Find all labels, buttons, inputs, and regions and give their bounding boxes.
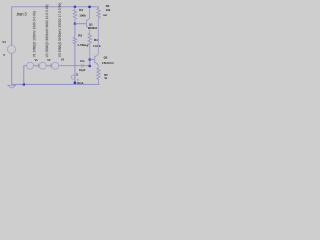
cap-like plate mark bbox=[37, 63, 39, 68]
svg-text:R3: R3 bbox=[78, 34, 82, 38]
resistor R1 (top, on x=74.9 column) bbox=[73, 7, 76, 24]
voltage source V3 bbox=[52, 62, 59, 69]
svg-text:V2 SINE(0 3000mV 6000 10 0 0 4: V2 SINE(0 3000mV 6000 10 0 0 45) bbox=[45, 5, 49, 58]
svg-text:V4: V4 bbox=[2, 40, 6, 44]
wire emitter node to Q2 base bbox=[90, 58, 95, 60]
wire: bottom rail bbox=[12, 83, 100, 85]
wire V3 to cap Cin bbox=[59, 65, 90, 67]
ground bbox=[8, 85, 16, 88]
junction at top rail / Q1 collector bbox=[88, 6, 90, 8]
transistor Q1 bbox=[86, 7, 89, 34]
svg-text:2N3904: 2N3904 bbox=[88, 26, 98, 30]
capacitor Cin bbox=[81, 64, 83, 68]
svg-text:Q1: Q1 bbox=[89, 22, 93, 26]
voltage source V1 bbox=[27, 62, 34, 69]
resistor R2 (collector, top right) bbox=[97, 7, 100, 19]
resistor R5 (Q2 emitter) bbox=[97, 68, 100, 84]
resistor R3 (mid, base to lower) bbox=[73, 37, 76, 43]
node junction at bottom rail / source branch bbox=[23, 83, 25, 85]
wire V2-V3 bbox=[46, 65, 51, 67]
wire node up bbox=[89, 59, 91, 65]
svg-text:R1: R1 bbox=[79, 8, 83, 12]
resistor R4 (Q1 emitter) bbox=[88, 33, 91, 59]
svg-text:Q2: Q2 bbox=[104, 56, 108, 60]
svg-text:100k: 100k bbox=[79, 14, 86, 18]
svg-text:15mA: 15mA bbox=[76, 81, 83, 85]
svg-text:Cin: Cin bbox=[80, 59, 85, 63]
voltage source V2 bbox=[39, 62, 46, 69]
wire R3 down, crossing source wire bbox=[74, 44, 76, 76]
svg-text:.tran 3: .tran 3 bbox=[16, 12, 27, 17]
transistor Q2 bbox=[95, 19, 99, 68]
svg-text:2N3904: 2N3904 bbox=[102, 61, 114, 65]
junction at rail / I1 branch bbox=[74, 82, 76, 84]
wire: source branch up from rail bbox=[24, 66, 27, 85]
svg-text:10k: 10k bbox=[106, 8, 111, 12]
junction at cap/emitter node corner bbox=[89, 65, 91, 67]
small source/lamp symbol near bottom bbox=[71, 75, 75, 79]
svg-text:V1 SINE(0 100mV 1000 0 0 00): V1 SINE(0 100mV 1000 0 0 00) bbox=[32, 11, 36, 57]
wire: top rail bbox=[12, 6, 99, 8]
wire V1-V2 bbox=[34, 65, 39, 67]
svg-text:100k: 100k bbox=[93, 44, 101, 48]
svg-text:R4: R4 bbox=[94, 38, 98, 42]
voltage source V4 (left supply) bbox=[7, 45, 15, 53]
svg-text:10µF: 10µF bbox=[79, 68, 86, 72]
svg-text:V3 SINE(0 5000mV 20000 17 0 0: V3 SINE(0 5000mV 20000 17 0 0 90) bbox=[58, 3, 62, 58]
wire base node down bbox=[74, 24, 76, 38]
wire: left vertical bottom bbox=[11, 53, 13, 84]
wire: base wire to Q1 bbox=[75, 23, 87, 25]
svg-text:1.5Meg: 1.5Meg bbox=[77, 43, 88, 47]
junction at top rail / R1 bbox=[74, 6, 76, 8]
svg-text:1k: 1k bbox=[104, 76, 108, 80]
junction at base node bbox=[74, 23, 76, 25]
wire: left vertical top bbox=[11, 7, 13, 46]
junction at emitter-resistor node bbox=[89, 58, 91, 60]
svg-text:out: out bbox=[103, 13, 107, 17]
